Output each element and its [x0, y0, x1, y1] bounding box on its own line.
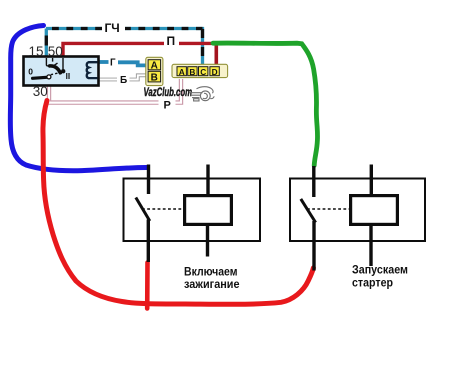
pad B: [188, 67, 197, 76]
K1 actuation dotted link: [142, 208, 184, 210]
connector X2 pads A-D (horizontal, olive outline): [172, 64, 228, 77]
svg-text:A: A: [179, 67, 185, 77]
pad A: [148, 60, 161, 70]
svg-text:B: B: [151, 73, 158, 84]
net Pi (dark red wire: terminal 50 up, right, down to pad D): [63, 43, 216, 66]
svg-text:D: D: [212, 67, 218, 77]
relay K1 (ignition relay): [124, 165, 261, 263]
switch contact II dot: [61, 69, 65, 73]
svg-text:Включаем: Включаем: [184, 267, 238, 279]
svg-text:C: C: [200, 67, 206, 77]
switch pivot: [47, 75, 51, 79]
relay K2 (starter relay): [290, 165, 425, 271]
svg-text:VazClub.com: VazClub.com: [144, 85, 193, 99]
K2 switch arm (open contact): [301, 199, 316, 223]
svg-text:ГЧ: ГЧ: [105, 21, 120, 35]
switch coil (anti-theft contact coil): [87, 62, 98, 78]
switch travel tick: [54, 63, 58, 66]
svg-text:стартер: стартер: [352, 278, 393, 290]
pad B: [148, 71, 161, 82]
svg-text:П: П: [167, 34, 176, 48]
K2 actuation dotted link: [307, 208, 350, 210]
connector X1 pads A/B (vertical, olive outline): [146, 57, 163, 85]
svg-text:15: 15: [29, 44, 44, 59]
switch internal contact prongs (terminals 15/50): [46, 58, 63, 69]
svg-text:Г: Г: [110, 58, 116, 69]
svg-text:Запускаем: Запускаем: [352, 265, 408, 277]
switch internal lead to contact II: [62, 58, 64, 69]
switch position 0 lever (thick): [33, 77, 47, 78]
svg-text:B: B: [189, 67, 195, 77]
K1 switch output pin: [147, 220, 150, 263]
svg-text:II: II: [66, 72, 71, 81]
K1 switch arm (open contact): [136, 198, 150, 222]
svg-text:Р: Р: [164, 100, 171, 112]
short drop from dashed wire into terminal 15: [45, 29, 48, 58]
svg-text:0: 0: [28, 66, 33, 76]
net G (teal wire: coil top to pad A of connector AB): [97, 62, 147, 65]
K2 switch output pin: [312, 221, 315, 271]
pad A: [177, 67, 186, 76]
svg-text:зажигание: зажигание: [184, 279, 240, 291]
switch rotor arm (thick arc): [50, 66, 61, 73]
K2 coil pin bottom: [369, 226, 372, 266]
pad D: [210, 67, 219, 76]
net GCh (dashed black/teal wire from terminal 15 up and right, down to pad C): [46, 21, 203, 67]
net B (gray double wire: coil bottom to pad B): [96, 75, 147, 79]
K1 switch input pin: [147, 165, 150, 195]
switch dashed travel mark: [51, 72, 62, 74]
ignition switch S1 (contact group box): [24, 57, 99, 86]
svg-text:A: A: [151, 61, 158, 72]
K2 switch input pin: [312, 166, 315, 197]
wire: green (net Pi to starter relay switch): [213, 43, 318, 165]
K2 coil box: [351, 196, 398, 225]
wire: thick red (terminal 30 around bottom to both relay switches): [43, 101, 313, 305]
svg-text:30: 30: [33, 84, 48, 99]
K2 coil pin top: [370, 165, 373, 195]
net P (pink double wire: terminal 30 to pad A of connector ABCD): [49, 79, 181, 110]
pad C: [199, 67, 208, 76]
K1 coil pin top: [206, 165, 209, 195]
watermark logo (sketch car): [190, 87, 215, 101]
K1 coil pin bottom: [206, 226, 209, 257]
wire: red spur up to ignition relay switch pin: [145, 263, 150, 309]
K1 coil box: [185, 196, 232, 225]
svg-text:50: 50: [48, 44, 63, 59]
svg-text:Б: Б: [120, 75, 127, 86]
wire: thick blue (battery feed down left side to ignition relay switch): [10, 26, 147, 171]
